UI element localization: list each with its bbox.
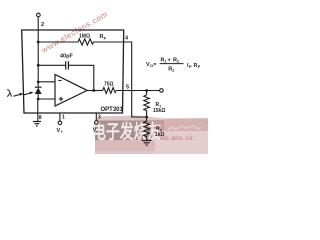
label V- bbox=[93, 127, 100, 133]
pin 3 stub bbox=[95, 113, 97, 121]
label V+ bbox=[57, 128, 64, 134]
pin label 8 bbox=[39, 115, 42, 121]
ground under photodiode bbox=[33, 122, 41, 126]
OPT301 package box bbox=[22, 30, 124, 113]
wire RF to pin4 bbox=[94, 41, 123, 43]
pin label 5 bbox=[126, 84, 129, 90]
wire node D to op-amp plus bbox=[38, 98, 55, 100]
svg-text:1: 1 bbox=[62, 115, 65, 121]
svg-text:15kΩ: 15kΩ bbox=[153, 108, 165, 114]
node A junction (feedback) bbox=[37, 41, 40, 44]
wire R2 to ground bbox=[146, 138, 148, 141]
terminal pin 2 bbox=[37, 13, 41, 65]
svg-text:2: 2 bbox=[41, 22, 44, 28]
label RF bbox=[100, 34, 107, 40]
value label 75 ohm bbox=[104, 82, 114, 88]
node C junction (inverting input) bbox=[37, 81, 40, 84]
label R1 bbox=[156, 102, 162, 108]
op-amp U1 bbox=[55, 75, 87, 107]
watermark band bottom right bbox=[95, 116, 208, 155]
wire cap to output node bbox=[68, 65, 93, 90]
pin label 4 bbox=[125, 36, 129, 42]
terminal V- bbox=[95, 121, 99, 125]
value label 1M ohm bbox=[79, 33, 90, 39]
svg-text:1MΩ: 1MΩ bbox=[79, 33, 90, 39]
resistor 75 ohm bbox=[103, 88, 117, 94]
svg-text:OPT301: OPT301 bbox=[101, 107, 124, 113]
svg-text:lec ans.co:: lec ans.co: bbox=[160, 135, 195, 142]
capacitor C 40pF bbox=[66, 61, 69, 69]
light arrow 2 bbox=[24, 92, 33, 95]
resistor R2 bbox=[144, 121, 150, 138]
label R2 bbox=[156, 126, 162, 132]
pin label 2 bbox=[41, 22, 44, 28]
svg-text:3: 3 bbox=[98, 115, 101, 121]
lambda light symbol bbox=[7, 90, 11, 97]
wire 75 ohm to output terminal bbox=[116, 90, 159, 92]
ground under R2 bbox=[142, 141, 152, 146]
label OPT301 bbox=[101, 107, 124, 113]
wire node B to cap bbox=[38, 64, 65, 66]
terminal V+ bbox=[58, 121, 62, 125]
svg-text:=: = bbox=[153, 62, 156, 68]
watermark diagonal url bbox=[39, 9, 109, 55]
svg-text:电子发烧友: 电子发烧友 bbox=[92, 120, 162, 143]
light arrow 1 bbox=[14, 93, 24, 96]
pin 1 stub bbox=[59, 113, 61, 121]
resistor RF 1M bbox=[78, 39, 94, 45]
pin label 3 bbox=[98, 115, 101, 121]
svg-text:40pF: 40pF bbox=[60, 54, 73, 60]
svg-text:75Ω: 75Ω bbox=[104, 82, 114, 88]
wire R1 to node G bbox=[146, 112, 148, 121]
value label 1k ohm bbox=[155, 132, 165, 138]
watermark chinese characters bbox=[92, 120, 162, 143]
node B junction (cap) bbox=[37, 64, 40, 67]
wire node C to op-amp minus bbox=[38, 81, 55, 83]
node F junction (output/R1) bbox=[145, 89, 148, 92]
photodiode D1 bbox=[35, 87, 42, 99]
formula Vo bbox=[146, 58, 201, 73]
node E junction (output/cap) bbox=[92, 89, 95, 92]
watermark small url bottom right bbox=[160, 135, 195, 142]
pin label 1 bbox=[62, 115, 65, 121]
node G junction (R1/R2/pin4) bbox=[145, 116, 148, 119]
wire node D to ground pin 8 bbox=[37, 99, 39, 121]
wire pin4 external to divider node bbox=[123, 42, 147, 117]
svg-text:5: 5 bbox=[126, 84, 129, 90]
output terminal bbox=[160, 89, 164, 93]
svg-text:8: 8 bbox=[39, 115, 42, 121]
wire node A to RF bbox=[38, 41, 78, 43]
value label 15k ohm bbox=[153, 108, 165, 114]
svg-text:P: P bbox=[189, 64, 192, 69]
resistor R1 bbox=[144, 91, 150, 113]
svg-text:+: + bbox=[168, 58, 171, 64]
value label 40pF bbox=[60, 54, 73, 60]
wire op-amp output bbox=[87, 90, 103, 92]
svg-text:1kΩ: 1kΩ bbox=[155, 132, 165, 138]
node D junction (non-inverting input) bbox=[37, 98, 40, 101]
wire node B to node C bbox=[37, 65, 39, 87]
